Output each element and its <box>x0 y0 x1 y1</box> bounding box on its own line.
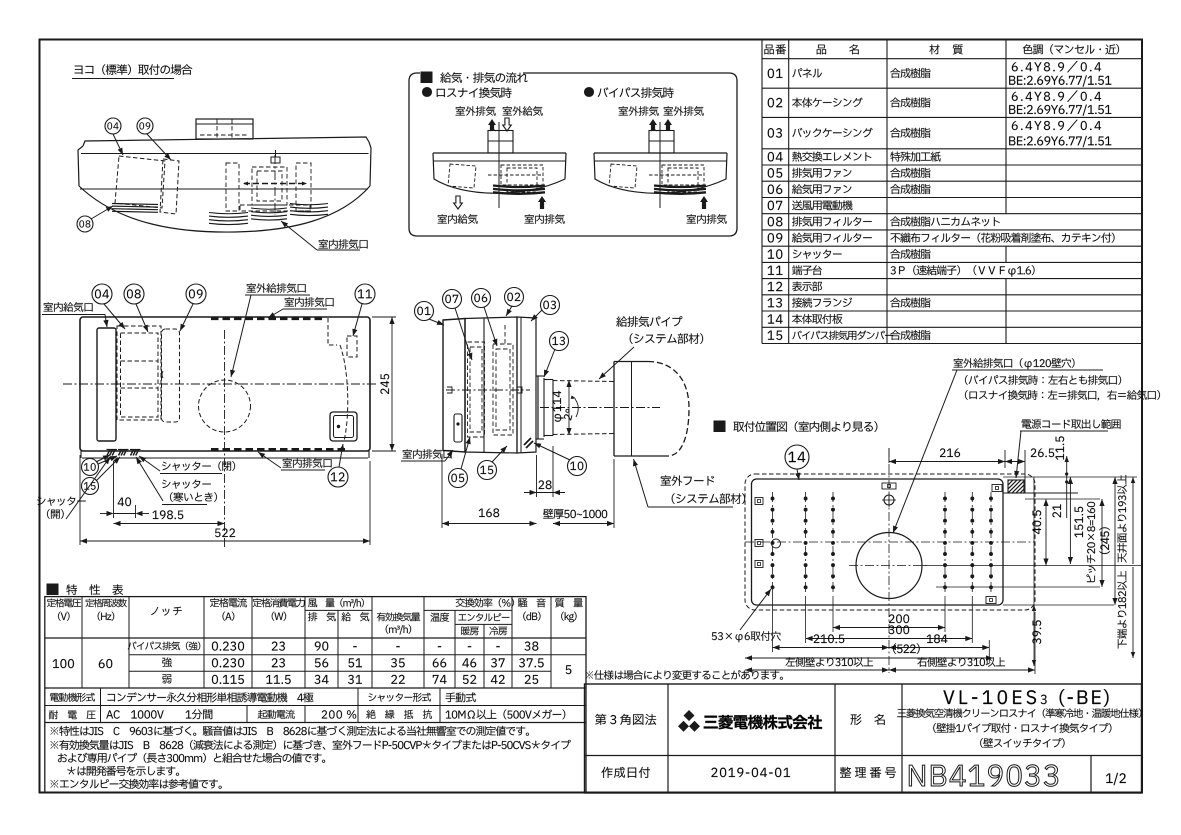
display window 12 <box>330 412 357 441</box>
balloon 06 side <box>472 289 491 308</box>
top right clip <box>992 485 1002 492</box>
char table data <box>53 659 74 668</box>
mini unit duct <box>649 131 674 154</box>
pipe dashed to hood <box>553 381 614 382</box>
dim 28 <box>536 455 538 497</box>
shutter hatch marks <box>107 450 110 456</box>
balloon 10 side <box>568 457 587 476</box>
document number outline text <box>909 765 1058 787</box>
balloon 08 front <box>124 284 144 304</box>
dim 210.5 <box>814 634 845 643</box>
dim 26.5 <box>1031 448 1054 457</box>
circle centerline horizontal <box>849 565 929 567</box>
mini unit element dashed <box>448 164 476 188</box>
exhaust filter 08 marks <box>112 204 158 205</box>
mini unit fan dashed <box>501 165 543 185</box>
front view body <box>80 317 370 451</box>
third angle label <box>595 714 656 725</box>
motor rows <box>100 688 102 723</box>
balloon 10 front <box>82 459 99 476</box>
label shutter open <box>37 497 86 506</box>
left bottom arrows <box>454 196 463 209</box>
label indoor supply <box>44 302 93 312</box>
balloon 05 side <box>449 469 468 488</box>
right mini unit labels <box>619 106 659 116</box>
front bottom louver dashed <box>211 448 346 451</box>
label pipe system <box>616 316 682 327</box>
mitsubishi company name <box>704 715 822 729</box>
outdoor hood <box>614 361 648 363</box>
label indoor exhaust bottom <box>283 458 332 468</box>
front top louver dashed <box>211 317 325 320</box>
pipe centerline <box>540 407 660 409</box>
dim phi114 <box>568 380 570 435</box>
unit body outline <box>83 137 369 146</box>
indoor exhaust label side <box>403 449 452 459</box>
parts table header <box>764 44 785 54</box>
balloon 02 side <box>505 288 524 307</box>
char table title <box>47 584 58 595</box>
fan assembly dashed <box>274 155 276 215</box>
balloon 04 front <box>92 284 112 304</box>
label shutter closed <box>162 461 235 471</box>
balloon 15 side <box>478 461 497 480</box>
dim 200 <box>889 614 909 623</box>
balloon 11 front <box>355 284 375 304</box>
notes <box>50 726 528 736</box>
display window side <box>454 414 462 442</box>
dim 245 <box>372 316 396 318</box>
wall hole circle <box>856 533 922 599</box>
damper mark <box>524 438 531 445</box>
right arrows top <box>649 119 657 131</box>
side view body panel 01 <box>443 319 465 453</box>
dim 168 <box>441 454 443 528</box>
mitsubishi logo <box>678 710 700 732</box>
plate outer dashed outline <box>745 474 1035 610</box>
mini unit louver dark <box>493 186 545 188</box>
body centerline <box>446 389 530 391</box>
keyhole top center <box>884 495 894 505</box>
dim 40 <box>113 461 115 518</box>
balloon 15 front <box>82 478 99 495</box>
element dashed side <box>468 342 485 437</box>
date label <box>601 767 650 778</box>
left arrows top <box>488 119 496 131</box>
power cord label <box>1022 419 1121 429</box>
date value <box>711 768 790 777</box>
plate solid outline <box>752 479 1004 605</box>
indoor exhaust label <box>319 239 368 249</box>
balloon 09 <box>137 118 153 134</box>
dim wall thickness <box>613 459 615 528</box>
balloon 01 side <box>415 302 434 321</box>
label mounting holes <box>712 631 781 642</box>
balloon 03 side <box>541 296 560 315</box>
page number <box>1106 773 1126 785</box>
heat exchange element 04 dashed <box>115 156 165 208</box>
parts table rows <box>768 69 783 78</box>
model description <box>897 708 1141 717</box>
flange and pipe 13 <box>537 376 539 439</box>
model name header <box>851 714 885 725</box>
mini unit centerline <box>659 122 661 208</box>
label outdoor inout top <box>247 283 306 293</box>
bypass mode label <box>585 88 594 97</box>
char table grid <box>45 597 586 793</box>
center circle dashed <box>199 380 251 432</box>
supply filter 09 dashed <box>160 159 179 214</box>
mini unit fan dashed <box>662 165 704 185</box>
balloon 08 <box>77 216 93 232</box>
dim 184 <box>927 634 948 643</box>
top duct box <box>196 119 253 139</box>
bottom right clip <box>986 597 996 604</box>
dim 300 <box>889 625 909 634</box>
dim 216 <box>888 448 890 463</box>
vertical centerline plate <box>888 448 890 673</box>
title block grid <box>585 684 1142 793</box>
mini unit centerline <box>498 122 500 208</box>
lossnay mode label <box>423 88 432 97</box>
model number <box>943 690 1036 704</box>
filter 09 dashed front <box>162 329 180 422</box>
label indoor exhaust top <box>285 297 334 307</box>
horizontal centerline <box>63 383 376 385</box>
balloon 09 front <box>186 284 206 304</box>
balloon 12 front <box>328 467 348 487</box>
body casing 02 <box>465 317 517 453</box>
airflow box <box>409 73 737 236</box>
mini unit body <box>433 152 566 154</box>
section title mounting position <box>714 421 725 432</box>
balloon 04 <box>105 118 121 134</box>
mini unit duct <box>488 131 513 154</box>
louver grille indoor exhaust <box>209 213 248 214</box>
dim (522) <box>893 643 920 653</box>
spec change note <box>585 670 782 680</box>
plate centerline horizontal <box>745 541 1035 543</box>
left big hole <box>772 539 781 548</box>
wall hole labels <box>954 358 1075 369</box>
label hood system <box>661 475 714 485</box>
vertical centerline <box>224 330 226 547</box>
dim left wall 310 <box>786 657 874 667</box>
element 04 dashed front <box>117 326 161 420</box>
mini unit element dashed <box>609 164 637 188</box>
left clips <box>755 498 763 505</box>
mini unit louver dark <box>654 186 706 188</box>
mini unit body <box>594 152 727 154</box>
back casing 03 <box>517 317 536 453</box>
ext lines bottom dims <box>772 592 774 652</box>
left supply opening <box>97 328 116 441</box>
dim 522 <box>79 455 81 545</box>
right side dims cluster <box>1033 477 1035 666</box>
dim 198.5 <box>153 510 184 519</box>
cord curve dashed <box>340 345 348 441</box>
right bottom arrow <box>700 196 708 209</box>
power cord hatch square <box>1008 480 1024 493</box>
top center clip <box>882 483 896 489</box>
char table header texts <box>47 598 81 607</box>
seiri bangou label <box>840 767 896 778</box>
title yoko mounting <box>75 64 193 75</box>
balloon 14 <box>785 445 809 469</box>
dim right wall 310 <box>917 657 1005 667</box>
balloon 07 side <box>443 290 462 309</box>
angle 2deg <box>575 399 578 417</box>
left mini unit labels <box>456 106 496 116</box>
parts table grid <box>762 58 1142 60</box>
balloon 13 side <box>550 332 569 351</box>
label shutter cold <box>162 480 211 489</box>
fans dashed side <box>493 344 513 435</box>
terminal area dashed <box>328 318 337 345</box>
airflow title <box>421 72 432 83</box>
ceiling floor limit dims <box>1132 477 1134 564</box>
mounting hole columns <box>772 492 774 592</box>
